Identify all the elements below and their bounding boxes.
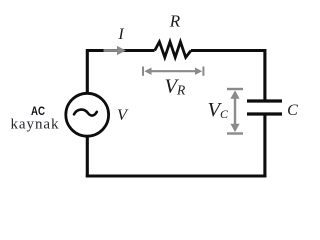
- current arrow I: [104, 46, 127, 55]
- svg-text:C: C: [287, 102, 298, 119]
- AC source: [66, 93, 109, 136]
- wire right-bottom segment: [263, 115, 266, 178]
- resistor R: [155, 42, 191, 58]
- voltage arrow V_R: [143, 67, 203, 76]
- wire bottom segment: [86, 174, 267, 177]
- wire left-bottom segment: [86, 135, 89, 178]
- label AC kaynak: [11, 104, 60, 132]
- svg-text:I: I: [117, 26, 124, 43]
- capacitor C: [247, 101, 282, 114]
- wire top-left segment: [87, 51, 154, 96]
- wire top-right segment: [191, 51, 265, 101]
- svg-text:kaynak: kaynak: [11, 116, 60, 132]
- voltage arrow V_C: [227, 89, 243, 134]
- svg-text:R: R: [169, 12, 181, 31]
